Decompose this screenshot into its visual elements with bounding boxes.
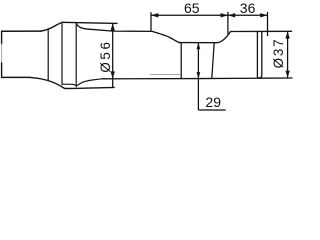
node arrowhead d37 down: [285, 71, 289, 78]
svg-text:36: 36: [240, 0, 256, 16]
node arrowhead d37 up: [285, 31, 289, 38]
svg-text:Ø56: Ø56: [98, 39, 113, 72]
wire collar edge line 2: [61, 22, 63, 84]
node groove left ramp: [152, 31, 179, 42]
wire collar edge line 3: [75, 23, 77, 87]
wire extension line 29 right: [212, 43, 214, 79]
node arrowhead d56 down: [111, 71, 115, 78]
wire dimension line diameter 37: [287, 31, 289, 78]
node outer top silhouette: [62, 22, 117, 23]
wire extension line 29 left: [180, 43, 182, 79]
node body bottom contour left: [2, 76, 30, 78]
node shank top contour and diameter extension: [231, 30, 292, 32]
wire dimension line 65-36: [151, 14, 268, 16]
node shank end chamfer edge: [256, 31, 258, 78]
wire extension line collar face / 65 left: [150, 12, 152, 32]
node groove right ramp: [217, 32, 231, 43]
node shank end face: [258, 32, 262, 78]
wire extension line shared 65/36: [227, 12, 229, 34]
node shank bottom contour and diameter extension: [103, 77, 292, 80]
node arrowhead d56 up: [111, 23, 115, 30]
wire leader 29 shelf: [198, 109, 225, 111]
wire collar edge line 1: [47, 29, 49, 81]
node body top flare curve: [41, 22, 63, 31]
node body top contour left: [2, 30, 42, 32]
node inner top line: [89, 29, 152, 31]
wire left break face: [1, 31, 3, 44]
svg-text:Ø37: Ø37: [271, 38, 286, 69]
node body bottom flare curve: [30, 77, 65, 88]
node arrowhead 29 leader up: [197, 43, 201, 50]
wire faint ghost line left of groove: [150, 74, 181, 76]
node outer bottom silhouette: [65, 87, 114, 88]
node inner top transition curve: [76, 23, 89, 29]
node inner bottom transition curve: [63, 79, 104, 86]
node arrowhead 29 leader down: [197, 72, 201, 79]
node groove flat bottom: [179, 42, 217, 44]
wire dimension line diameter 56: [112, 23, 114, 87]
node arrowhead 65 left: [151, 13, 158, 17]
svg-text:65: 65: [184, 0, 200, 16]
svg-text:29: 29: [205, 94, 221, 110]
wire leader 29 vertical: [197, 43, 199, 110]
node arrowhead 65 right: [221, 13, 228, 17]
wire extension line 36 right: [267, 12, 269, 36]
node arrowhead 36 right: [260, 13, 267, 17]
node arrowhead 36 left: [228, 13, 235, 17]
